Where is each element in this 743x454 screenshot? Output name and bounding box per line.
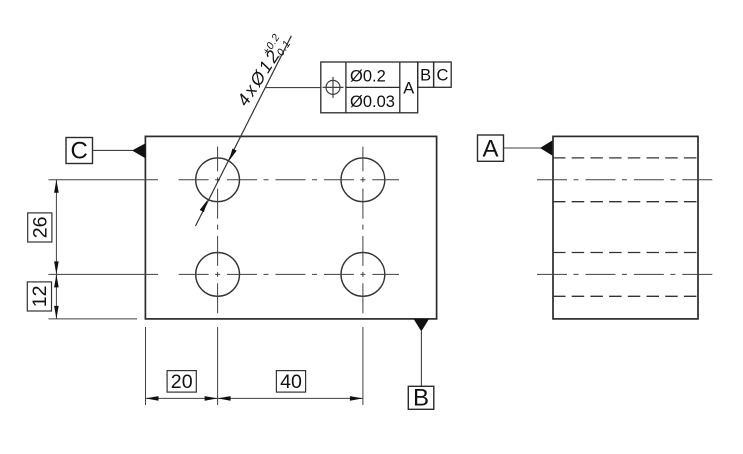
- side view hidden line hole2 top: [553, 252, 698, 254]
- center line vertical column 2: [362, 147, 364, 405]
- datum B leader: [420, 331, 422, 386]
- dimension extension line left edge bottom: [145, 327, 147, 405]
- FCF cell divider tolerance: [399, 62, 401, 113]
- svg-text:20: 20: [171, 371, 193, 393]
- side view center line row 1: [537, 179, 714, 181]
- FCF cell divider symbol: [345, 62, 347, 113]
- svg-text:C: C: [71, 138, 88, 165]
- dim box 26: [28, 213, 52, 242]
- hole callout text 4xO12: [230, 31, 293, 110]
- svg-text:12: 12: [29, 286, 51, 308]
- dimension line bottom: [146, 397, 363, 399]
- side view hidden line hole1 bottom: [553, 201, 698, 203]
- arrow bottom left: [146, 396, 159, 401]
- center line vertical column 1: [217, 147, 219, 405]
- dimension extension line bottom edge left: [49, 318, 138, 320]
- arrow left mid pair: [54, 261, 59, 274]
- FCF datum B cell: [418, 62, 434, 87]
- svg-text:40: 40: [280, 371, 302, 393]
- svg-text:C: C: [436, 67, 448, 85]
- leader arrow at hole bottom-left crossing: [200, 200, 208, 213]
- feature control frame outline: [321, 62, 418, 113]
- arrow bottom right: [350, 396, 363, 401]
- svg-text:B: B: [413, 384, 429, 411]
- leader line horizontal to FCF: [266, 87, 321, 89]
- hole top-right: [341, 158, 385, 202]
- svg-text:Ø0.2: Ø0.2: [350, 68, 386, 86]
- center line horizontal row 1: [49, 179, 400, 181]
- hole bottom-right: [341, 253, 385, 297]
- dim box 20: [167, 371, 196, 393]
- datum A leader: [504, 147, 541, 149]
- leader arrow at hole top-right crossing: [229, 149, 237, 162]
- side view hidden line hole2 bottom: [553, 295, 698, 297]
- position symbol: [323, 77, 344, 98]
- side view center line row 2: [537, 273, 714, 275]
- svg-text:A: A: [482, 135, 498, 162]
- svg-text:B: B: [420, 67, 431, 85]
- svg-text:Ø0.03: Ø0.03: [350, 93, 395, 111]
- datum A triangle: [540, 140, 553, 156]
- dim box 12: [27, 282, 51, 311]
- dim box 40: [276, 371, 305, 393]
- arrow left top (up): [54, 180, 59, 193]
- svg-text:A: A: [403, 79, 414, 97]
- datum A box: [478, 135, 504, 161]
- datum C leader: [93, 149, 133, 151]
- side view hidden line hole1 top: [553, 157, 698, 159]
- center line horizontal row 2: [49, 273, 400, 275]
- arrow left bottom (down): [54, 306, 59, 319]
- leader line diagonal: [196, 36, 292, 226]
- FCF row divider: [346, 86, 400, 88]
- arrow bottom middle pair: [205, 396, 218, 401]
- front view outline: [145, 136, 436, 319]
- datum C box: [66, 138, 93, 164]
- side view outline: [553, 136, 698, 319]
- svg-text:26: 26: [30, 216, 52, 238]
- hole bottom-left: [196, 253, 240, 297]
- FCF datum C cell: [434, 62, 452, 87]
- datum B box: [408, 386, 434, 409]
- dimension line left vertical: [55, 180, 57, 319]
- datum B triangle: [414, 319, 429, 331]
- datum C triangle: [132, 143, 145, 158]
- hole top-left: [196, 158, 240, 202]
